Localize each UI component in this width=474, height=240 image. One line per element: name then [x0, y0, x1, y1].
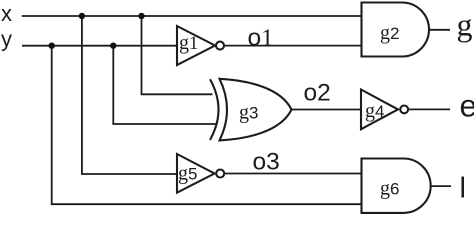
wire o1 (g1 output to g2): [224, 45, 362, 47]
wire y input: [22, 45, 177, 47]
inverter g5 triangle: [177, 154, 215, 193]
wire o2 (g3 output to g4): [290, 109, 361, 111]
inverter g5 bubble: [216, 170, 224, 178]
inverter g4 triangle: [361, 90, 398, 130]
wire y branch to g6: [52, 46, 362, 205]
inverter g1 triangle: [177, 26, 215, 65]
junction y/g3 branch: [110, 43, 116, 49]
svg-text:o3: o3: [253, 148, 280, 175]
svg-text:l: l: [460, 173, 466, 205]
wire g4 output to e: [408, 108, 450, 110]
svg-text:g: g: [457, 7, 473, 43]
junction x/g5 branch: [79, 13, 85, 19]
inverter g1 bubble: [216, 42, 224, 50]
wire x input: [22, 15, 362, 17]
and-gate g6 body: [362, 159, 431, 213]
svg-text:x: x: [1, 1, 12, 26]
wire y branch to g3: [113, 46, 216, 124]
wire x branch to g5: [82, 16, 177, 174]
wire g2 output to g: [429, 29, 450, 31]
svg-text:g5: g5: [178, 163, 197, 185]
svg-text:o1: o1: [248, 24, 274, 51]
wire x branch to g3: [142, 16, 213, 94]
junction x/g3 branch: [138, 13, 144, 19]
xor g3 back arc: [210, 79, 219, 140]
wire o3 (g5 output to g6): [225, 173, 362, 175]
xor g3 body: [220, 79, 292, 141]
inverter g4 bubble: [400, 106, 408, 114]
svg-text:g4: g4: [365, 100, 384, 122]
svg-text:o2: o2: [304, 80, 331, 107]
junction y/g6 branch: [49, 43, 55, 49]
svg-text:y: y: [1, 27, 12, 52]
svg-text:e: e: [460, 87, 474, 123]
svg-text:g1: g1: [179, 32, 198, 54]
svg-text:g6: g6: [380, 177, 399, 199]
wire g6 output to l: [431, 185, 451, 187]
svg-text:g2: g2: [380, 22, 399, 44]
and-gate g2 body: [362, 3, 430, 57]
svg-text:g3: g3: [239, 101, 258, 123]
